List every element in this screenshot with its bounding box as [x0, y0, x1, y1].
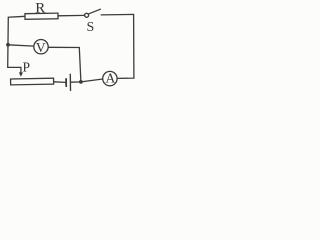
svg-text:V: V — [36, 40, 46, 55]
svg-text:R: R — [35, 0, 45, 16]
svg-text:P: P — [23, 59, 31, 74]
svg-text:A: A — [106, 70, 116, 85]
svg-text:S: S — [87, 20, 95, 35]
